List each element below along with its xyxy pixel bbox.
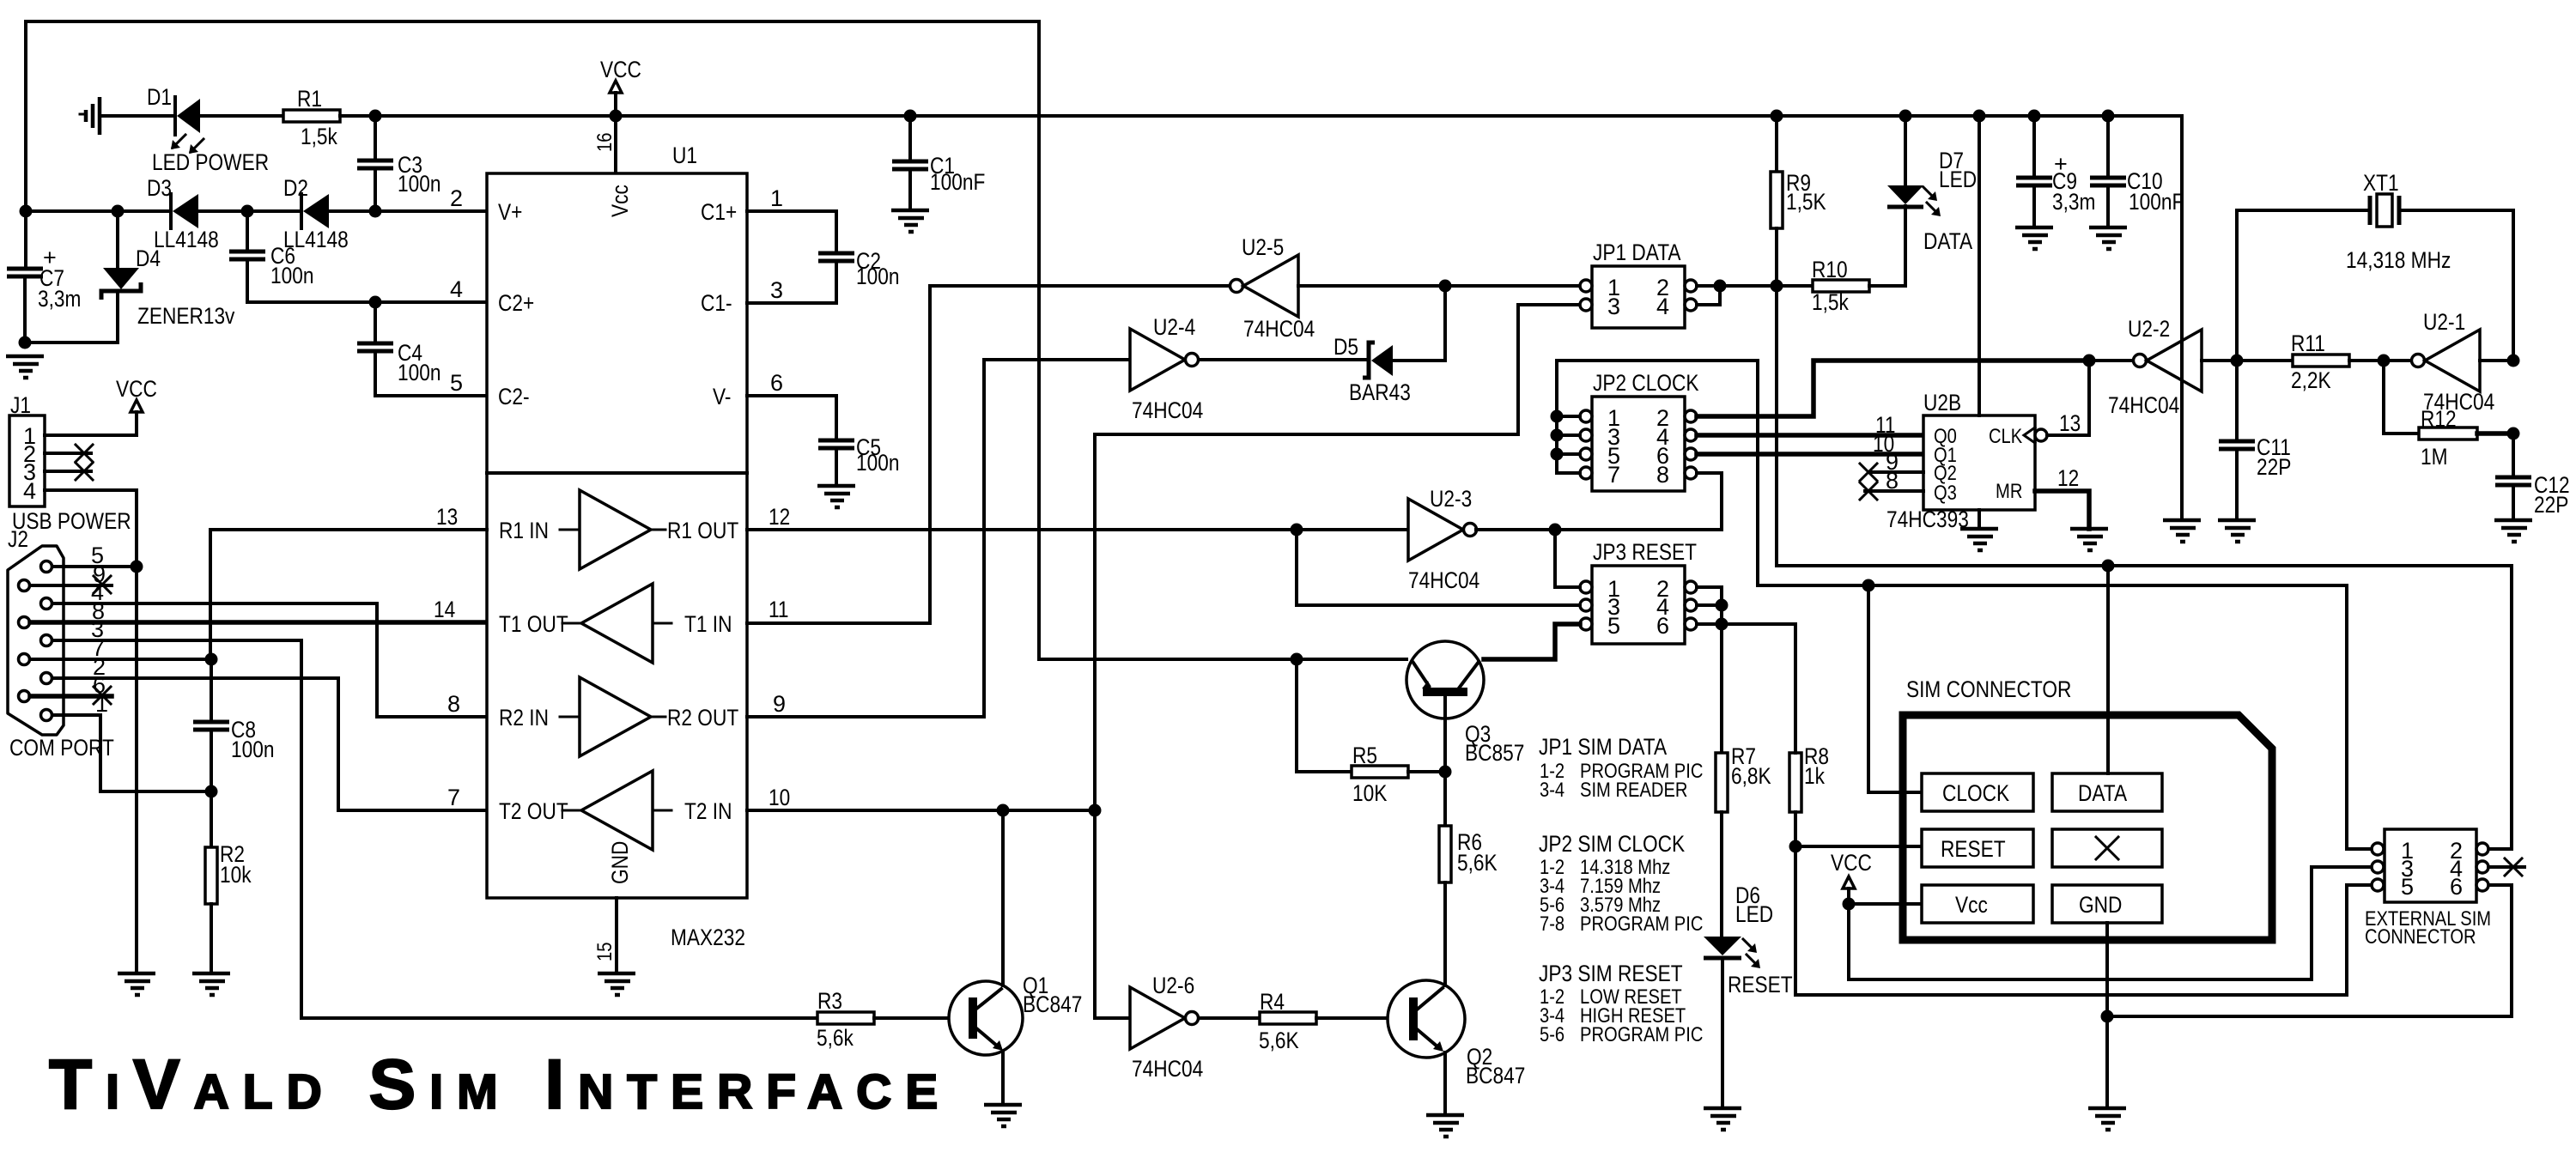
- pin 6 V- to C5: [747, 370, 836, 440]
- svg-text:Vcc: Vcc: [1955, 892, 1988, 918]
- svg-text:74HC04: 74HC04: [1132, 397, 1203, 423]
- wire COM pin6 (nc): [30, 687, 112, 704]
- svg-text:U1: U1: [672, 142, 697, 168]
- pin labels upper section: [498, 199, 737, 409]
- inverter U2-6: [1130, 973, 1203, 1082]
- svg-text:5,6K: 5,6K: [1259, 1028, 1299, 1053]
- svg-text:2: 2: [450, 185, 463, 211]
- U2B pin8 stub (nc): [1860, 468, 1923, 500]
- GND rail from GND pad to external SIM: [2088, 885, 2512, 1130]
- wire CLOCK into SIM CLOCK box: [1868, 585, 1922, 792]
- VCC symbol at J1: [116, 376, 157, 435]
- wire R2 OUT pin9 to U2-4 input: [747, 360, 1130, 717]
- svg-text:7-8: 7-8: [1540, 913, 1564, 936]
- svg-text:C2-: C2-: [498, 384, 530, 409]
- svg-text:C2+: C2+: [498, 290, 534, 316]
- node COM pin5 junction: [131, 561, 143, 573]
- capacitor C8: [193, 659, 229, 791]
- svg-text:VCC: VCC: [1831, 850, 1872, 876]
- jumper JP3 RESET: [1580, 539, 1697, 644]
- wire U2-4 output to D5: [1199, 358, 1367, 361]
- svg-text:3: 3: [770, 277, 783, 303]
- svg-text:JP1 SIM DATA: JP1 SIM DATA: [1539, 734, 1667, 760]
- svg-text:12: 12: [2057, 465, 2079, 491]
- pin number labels right side: [769, 504, 790, 810]
- SIM pad nc with X: [2052, 829, 2162, 867]
- svg-text:T1 IN: T1 IN: [684, 611, 732, 637]
- svg-text:U2-3: U2-3: [1430, 486, 1472, 512]
- SIM pad DATA: [2052, 773, 2162, 811]
- wire U2-2 output: [2089, 359, 2133, 362]
- svg-text:LL4148: LL4148: [154, 227, 219, 252]
- IC U1 box: [487, 173, 747, 898]
- svg-text:13: 13: [2059, 410, 2081, 436]
- wire COM pin5: [52, 565, 137, 568]
- ground below J1 line: [118, 973, 155, 995]
- node COM7/C8: [205, 653, 218, 666]
- svg-text:JP1 DATA: JP1 DATA: [1593, 239, 1681, 265]
- svg-text:ZENER13v: ZENER13v: [137, 303, 235, 329]
- resistor R3: [817, 1012, 949, 1024]
- svg-text:D4: D4: [136, 246, 161, 271]
- wire R1 to VCC rail: [340, 114, 2182, 118]
- wire T2 IN pin10: [747, 809, 1095, 812]
- svg-text:CLOCK: CLOCK: [1942, 780, 2009, 806]
- wire COM pin8 to T1 OUT: [30, 620, 487, 625]
- buffer R1 (U1): [499, 490, 738, 569]
- wire COM pin9 (nc): [30, 576, 112, 593]
- svg-text:BC857: BC857: [1465, 740, 1524, 766]
- svg-text:D2: D2: [283, 175, 308, 201]
- vertical JP1 pin3 net: [1095, 434, 1130, 1018]
- svg-text:R1 OUT: R1 OUT: [667, 518, 738, 543]
- svg-text:6: 6: [770, 370, 783, 396]
- svg-text:GND: GND: [607, 841, 633, 884]
- svg-text:5-6: 5-6: [1540, 1023, 1564, 1046]
- svg-text:U2-2: U2-2: [2128, 316, 2170, 342]
- svg-text:XT1: XT1: [2363, 170, 2399, 196]
- node C4 top: [369, 296, 382, 309]
- wire U2-2 input to osc node: [2202, 359, 2237, 362]
- resistor R11: [2237, 355, 2384, 367]
- wire MR pin12 to ground: [2035, 465, 2108, 550]
- node at C3 top: [369, 110, 382, 123]
- svg-text:100nF: 100nF: [930, 169, 985, 195]
- node at C1: [904, 110, 917, 123]
- ground below C5: [817, 486, 855, 507]
- wire J1 pin3 (nc): [45, 463, 93, 480]
- node VCC sim: [1843, 898, 1856, 911]
- diode D7 LED: [1887, 116, 1923, 207]
- wire J1 pin2 (nc): [45, 445, 93, 462]
- inverter U2-4: [1130, 314, 1203, 423]
- svg-text:6,8K: 6,8K: [1731, 763, 1771, 789]
- RESET rail to external SIM: [1795, 885, 2372, 995]
- wire VCC to Vcc box: [1849, 902, 1922, 906]
- svg-text:7: 7: [447, 785, 460, 810]
- svg-text:BC847: BC847: [1023, 991, 1082, 1017]
- node C3 bottom: [369, 205, 382, 218]
- svg-text:T2 OUT: T2 OUT: [499, 798, 568, 824]
- svg-text:9: 9: [773, 691, 786, 717]
- VCC symbol at U1 pin 16: [600, 57, 641, 173]
- wire R8 to SIM RESET box: [1795, 845, 1922, 848]
- svg-text:3,3m: 3,3m: [2052, 189, 2095, 215]
- node C8 bottom: [205, 785, 218, 798]
- svg-text:T1 OUT: T1 OUT: [499, 611, 568, 637]
- svg-text:100n: 100n: [856, 450, 900, 476]
- svg-text:8: 8: [1656, 462, 1669, 488]
- node R1OUT branch to JP3 pin3: [1291, 524, 1303, 537]
- ground (rotated) at D1 anode: [80, 97, 100, 135]
- Q2 collector wire to R6: [1443, 980, 1447, 985]
- pin 13 R1 IN wire: [210, 530, 487, 659]
- svg-text:U2-1: U2-1: [2423, 309, 2465, 335]
- Q1 emitter to ground: [984, 1052, 1022, 1126]
- resistor R12 feedback: [2384, 361, 2513, 440]
- resistor R10: [1777, 206, 1905, 292]
- wire U2-1 output: [2384, 359, 2411, 362]
- svg-text:100n: 100n: [856, 264, 900, 289]
- node at C9: [2028, 110, 2041, 123]
- node C7/D4 bottom: [19, 337, 32, 349]
- node DATA to SIM box: [2102, 560, 2115, 573]
- capacitor C12: [2494, 434, 2532, 542]
- svg-text:1,5k: 1,5k: [301, 124, 337, 149]
- svg-text:22P: 22P: [2534, 492, 2568, 518]
- svg-text:1,5k: 1,5k: [1812, 289, 1849, 315]
- top long wire from V+ node to right column: [26, 21, 1406, 659]
- svg-text:74HC393: 74HC393: [1886, 506, 1969, 532]
- svg-text:74HC04: 74HC04: [1243, 316, 1315, 342]
- capacitor C11: [2218, 361, 2256, 542]
- node DATA net main: [1771, 280, 1783, 293]
- wire COM pin1 to C8 bottom: [52, 715, 211, 791]
- node Q1 collector branch: [997, 804, 1010, 817]
- svg-text:U2-6: U2-6: [1152, 973, 1194, 998]
- wire R1 OUT pin12 to U2-3: [747, 528, 1408, 531]
- svg-text:3-4: 3-4: [1540, 779, 1564, 802]
- wires JP3 even pins common: [1697, 587, 1795, 753]
- svg-text:DATA: DATA: [2078, 780, 2127, 806]
- resistor R5: [1297, 659, 1445, 778]
- svg-text:USB POWER: USB POWER: [12, 508, 131, 534]
- wire Q3 emitter row: [1039, 658, 1406, 661]
- zener D4: [101, 211, 141, 300]
- inverter U2-5: [1230, 234, 1315, 342]
- capacitor C3: [357, 116, 393, 211]
- VCC rail to external SIM: [1849, 867, 2372, 979]
- svg-text:U2-5: U2-5: [1242, 234, 1284, 260]
- svg-text:5: 5: [450, 370, 463, 396]
- node at U2B vcc: [1973, 110, 1986, 123]
- wire J1 pin1 to VCC: [45, 434, 137, 437]
- U2B pin9 stub (nc): [1860, 449, 1923, 481]
- jumper JP1 DATA: [1580, 239, 1697, 328]
- svg-text:1: 1: [95, 691, 108, 717]
- wire JP1 pin2 to R9/R10 node: [1697, 284, 1777, 288]
- pin 1 C1+ to C2: [747, 185, 836, 253]
- capacitor C6: [229, 211, 487, 302]
- inverter U2-1: [2412, 309, 2495, 415]
- capacitor C2: [747, 253, 854, 303]
- svg-text:RESET: RESET: [1941, 836, 2006, 862]
- capacitor C4: [357, 302, 487, 396]
- svg-text:74HC04: 74HC04: [1132, 1056, 1203, 1082]
- wire COM pin3 to R3: [52, 640, 817, 1018]
- diode D1 (LED POWER): [175, 97, 200, 135]
- svg-text:R11: R11: [2291, 330, 2325, 356]
- wire U2-3 output: [1476, 528, 1722, 531]
- node at D7: [1899, 110, 1912, 123]
- node T2IN / JP1-3 / U2-6 column: [1089, 804, 1102, 817]
- wire ground to D1: [100, 114, 173, 118]
- wire T1 IN pin11 to U2-5 output: [747, 286, 1230, 623]
- vertical DATA net down to SIM: [1777, 286, 2512, 849]
- SIM pad RESET: [1922, 829, 2033, 867]
- svg-text:TiVald Sim Interface: TiVald Sim Interface: [49, 1046, 951, 1124]
- svg-text:7: 7: [1607, 462, 1620, 488]
- wire COM pin7 to C8: [30, 658, 211, 661]
- svg-text:COM PORT: COM PORT: [9, 735, 114, 761]
- svg-text:12: 12: [769, 504, 790, 530]
- Q2 emitter to ground: [1426, 1052, 1464, 1137]
- CLOCK rail from JP2 to SIM and external: [1758, 585, 2372, 849]
- wire COM pin2 to T2 OUT: [52, 678, 487, 810]
- svg-text:BC847: BC847: [1466, 1063, 1525, 1088]
- svg-text:74HC04: 74HC04: [2108, 392, 2179, 418]
- wire JP1 pin4 up to pin2 wire: [1697, 286, 1720, 305]
- svg-text:R10: R10: [1812, 257, 1848, 282]
- svg-text:6: 6: [2450, 874, 2463, 900]
- wire COM pin4 to R2 IN: [52, 603, 487, 717]
- svg-text:22P: 22P: [2257, 454, 2291, 480]
- svg-text:JP2 CLOCK: JP2 CLOCK: [1593, 370, 1699, 396]
- node osc left: [2231, 355, 2244, 367]
- svg-text:LED: LED: [1939, 167, 1977, 192]
- VCC rail end drop to ground: [2163, 116, 2201, 542]
- svg-text:5,6K: 5,6K: [1457, 850, 1498, 876]
- wire U2-5 input to JP1 pin1: [1298, 284, 1580, 288]
- svg-text:MAX232: MAX232: [671, 925, 745, 950]
- node V+ left: [20, 205, 33, 218]
- svg-text:10k: 10k: [220, 862, 252, 888]
- transistor Q3 BC857: [1406, 641, 1484, 772]
- transistor Q1 BC847: [949, 981, 1023, 1055]
- svg-text:C1+: C1+: [701, 199, 737, 225]
- svg-text:16: 16: [593, 133, 617, 152]
- wire J1 pin4 to ground: [45, 490, 137, 973]
- svg-text:100n: 100n: [231, 737, 275, 762]
- svg-text:1,5K: 1,5K: [1786, 189, 1826, 215]
- crystal XT1: [2237, 194, 2513, 361]
- resistor R6: [1439, 772, 1451, 980]
- diode D6 LED: [1704, 937, 1741, 1108]
- svg-text:DATA: DATA: [1923, 228, 1972, 254]
- V+ wire row: [26, 209, 487, 213]
- svg-text:LED: LED: [1735, 901, 1773, 927]
- LED arrows of D1: [171, 135, 204, 154]
- node CLOCK to SIM box: [1862, 579, 1875, 592]
- svg-text:3,3m: 3,3m: [38, 286, 81, 312]
- svg-text:V+: V+: [498, 199, 522, 225]
- svg-text:100nF: 100nF: [2129, 189, 2184, 215]
- SIM pad Vcc: [1922, 885, 2033, 923]
- node at R9: [1771, 110, 1783, 123]
- svg-text:GND: GND: [2079, 892, 2122, 918]
- svg-text:2,2K: 2,2K: [2291, 367, 2331, 393]
- svg-text:R1: R1: [297, 86, 322, 112]
- wire JP3 pin5 from Q3 collector: [1484, 624, 1580, 659]
- wire C7 to D4 bottom: [25, 291, 118, 343]
- capacitor C5: [818, 440, 854, 486]
- svg-text:V-: V-: [713, 384, 731, 409]
- svg-text:100n: 100n: [398, 171, 441, 197]
- LED arrows of D6: [1743, 939, 1760, 968]
- svg-text:11: 11: [769, 597, 789, 622]
- svg-text:5: 5: [1607, 613, 1620, 639]
- wire JP3 pin1 from U2-3 output: [1555, 530, 1580, 587]
- capacitor C10: [2089, 116, 2127, 249]
- svg-text:T2 IN: T2 IN: [684, 798, 732, 824]
- VCC symbol at SIM: [1831, 850, 1872, 904]
- wire JP2 pin2 to U2-2 output: [1697, 361, 2089, 416]
- svg-text:PROGRAM PIC: PROGRAM PIC: [1580, 913, 1703, 936]
- svg-text:8: 8: [1886, 468, 1899, 494]
- ground below R2: [192, 973, 230, 995]
- svg-text:R4: R4: [1260, 989, 1285, 1015]
- svg-text:8: 8: [447, 691, 460, 717]
- resistor R7: [1716, 753, 1728, 937]
- svg-text:CLK: CLK: [1989, 425, 2022, 448]
- svg-text:R1 IN: R1 IN: [499, 518, 549, 543]
- svg-text:D5: D5: [1334, 334, 1358, 360]
- svg-text:C1-: C1-: [701, 290, 732, 316]
- svg-text:R2 OUT: R2 OUT: [667, 705, 738, 731]
- pin 15 stub and ground: [593, 898, 635, 995]
- svg-text:10: 10: [769, 785, 790, 810]
- svg-text:PROGRAM PIC: PROGRAM PIC: [1580, 1023, 1703, 1046]
- wire U2-1 input: [2480, 359, 2513, 362]
- inverter U2-3: [1408, 486, 1479, 593]
- ground below D6: [1704, 1108, 1741, 1130]
- LED arrows of D7: [1923, 187, 1941, 216]
- svg-text:SIM CONNECTOR: SIM CONNECTOR: [1906, 676, 2071, 702]
- svg-text:VCC: VCC: [600, 57, 641, 82]
- transistor Q2 BC847: [1388, 980, 1465, 1058]
- svg-text:JP3 RESET: JP3 RESET: [1593, 539, 1697, 565]
- pin number labels left side: [434, 504, 460, 810]
- svg-text:5: 5: [2401, 874, 2414, 900]
- svg-text:74HC04: 74HC04: [1408, 567, 1479, 593]
- jumper JP2 CLOCK: [1580, 370, 1699, 491]
- wire U2-6 output to R4: [1199, 1016, 1260, 1020]
- text block JP2 SIM CLOCK: [1539, 831, 1703, 936]
- wires JP2 odd pins to common rail: [1551, 361, 1759, 585]
- svg-text:BAR43: BAR43: [1349, 379, 1411, 405]
- wire JP3 pin3 from U2-3 input: [1297, 530, 1580, 605]
- svg-text:13: 13: [436, 504, 458, 530]
- text block JP1 SIM DATA: [1539, 734, 1703, 802]
- node C6 top: [241, 205, 254, 218]
- ground below C1: [891, 210, 929, 232]
- svg-text:4: 4: [450, 276, 463, 302]
- external SIM pin4 stub (nc): [2488, 858, 2524, 876]
- node Q3 emitter branch: [1291, 653, 1303, 666]
- node R11/R12/U2-1 out: [2378, 355, 2391, 367]
- capacitor C1: [892, 116, 928, 210]
- svg-text:RESET: RESET: [1728, 972, 1793, 997]
- svg-text:1k: 1k: [1804, 763, 1825, 789]
- wire JP1 pin3 horizontal: [1095, 305, 1580, 434]
- U2B ground stub: [1960, 510, 1998, 550]
- svg-text:100n: 100n: [398, 360, 441, 385]
- connector J1: [9, 415, 45, 506]
- svg-text:R12: R12: [2421, 406, 2457, 432]
- SIM pad GND: [2052, 885, 2162, 923]
- capacitor C9: [2015, 116, 2053, 249]
- resistor R8: [1789, 624, 1801, 995]
- node R8 bottom / SIM RESET: [1789, 840, 1802, 853]
- svg-text:3: 3: [1607, 294, 1620, 319]
- IC U2B 74HC393: [1886, 390, 2047, 532]
- buffer T2 (U1): [499, 771, 732, 850]
- node at VCC pin16: [610, 110, 623, 123]
- svg-text:10K: 10K: [1352, 780, 1387, 806]
- node D4 top: [112, 205, 125, 218]
- SIM card outline: [1903, 715, 2272, 940]
- text block JP3 SIM RESET: [1539, 961, 1703, 1046]
- svg-text:LED POWER: LED POWER: [152, 149, 269, 175]
- ground below C7: [6, 356, 44, 378]
- svg-text:6: 6: [1656, 613, 1669, 639]
- connector J2 outline: [8, 546, 64, 735]
- svg-text:15: 15: [593, 943, 617, 961]
- svg-text:MR: MR: [1996, 480, 2022, 503]
- capacitor C7: [7, 211, 43, 343]
- svg-text:U2-4: U2-4: [1153, 314, 1195, 340]
- svg-text:R5: R5: [1352, 743, 1377, 768]
- svg-text:CONNECTOR: CONNECTOR: [2365, 925, 2476, 949]
- buffer T1 (U1): [499, 584, 732, 663]
- svg-text:1M: 1M: [2421, 444, 2448, 470]
- wire D1 to R1: [200, 114, 283, 118]
- wire JP2 pin6 to U2B Q1: [1697, 452, 1923, 457]
- svg-text:U2B: U2B: [1923, 390, 1961, 415]
- Q1 collector wire: [1001, 810, 1005, 985]
- diode D2: [301, 194, 329, 228]
- svg-text:14: 14: [434, 597, 455, 622]
- U2B vcc feed from rail: [1978, 116, 1981, 415]
- svg-text:J2: J2: [8, 526, 28, 552]
- node D5 branch: [1439, 280, 1452, 293]
- diode D3: [171, 194, 198, 228]
- node 14MHz / CLK: [2083, 355, 2096, 367]
- resistor R2: [205, 791, 217, 973]
- svg-text:D1: D1: [147, 84, 172, 110]
- resistor R1: [283, 110, 340, 122]
- svg-text:100n: 100n: [270, 263, 314, 288]
- connector EXTERNAL SIM: [2372, 829, 2488, 902]
- node Q3 base / R5 / R6: [1439, 766, 1452, 779]
- resistor R9: [1771, 116, 1783, 286]
- wire JP2 pin8 to U2-3 output: [1697, 473, 1722, 530]
- svg-text:R3: R3: [817, 988, 842, 1014]
- wire DATA vertical into DATA pad: [2106, 566, 2110, 773]
- svg-text:14,318 MHz: 14,318 MHz: [2346, 247, 2451, 273]
- svg-text:JP3 SIM RESET: JP3 SIM RESET: [1539, 961, 1683, 986]
- svg-text:D3: D3: [147, 175, 172, 201]
